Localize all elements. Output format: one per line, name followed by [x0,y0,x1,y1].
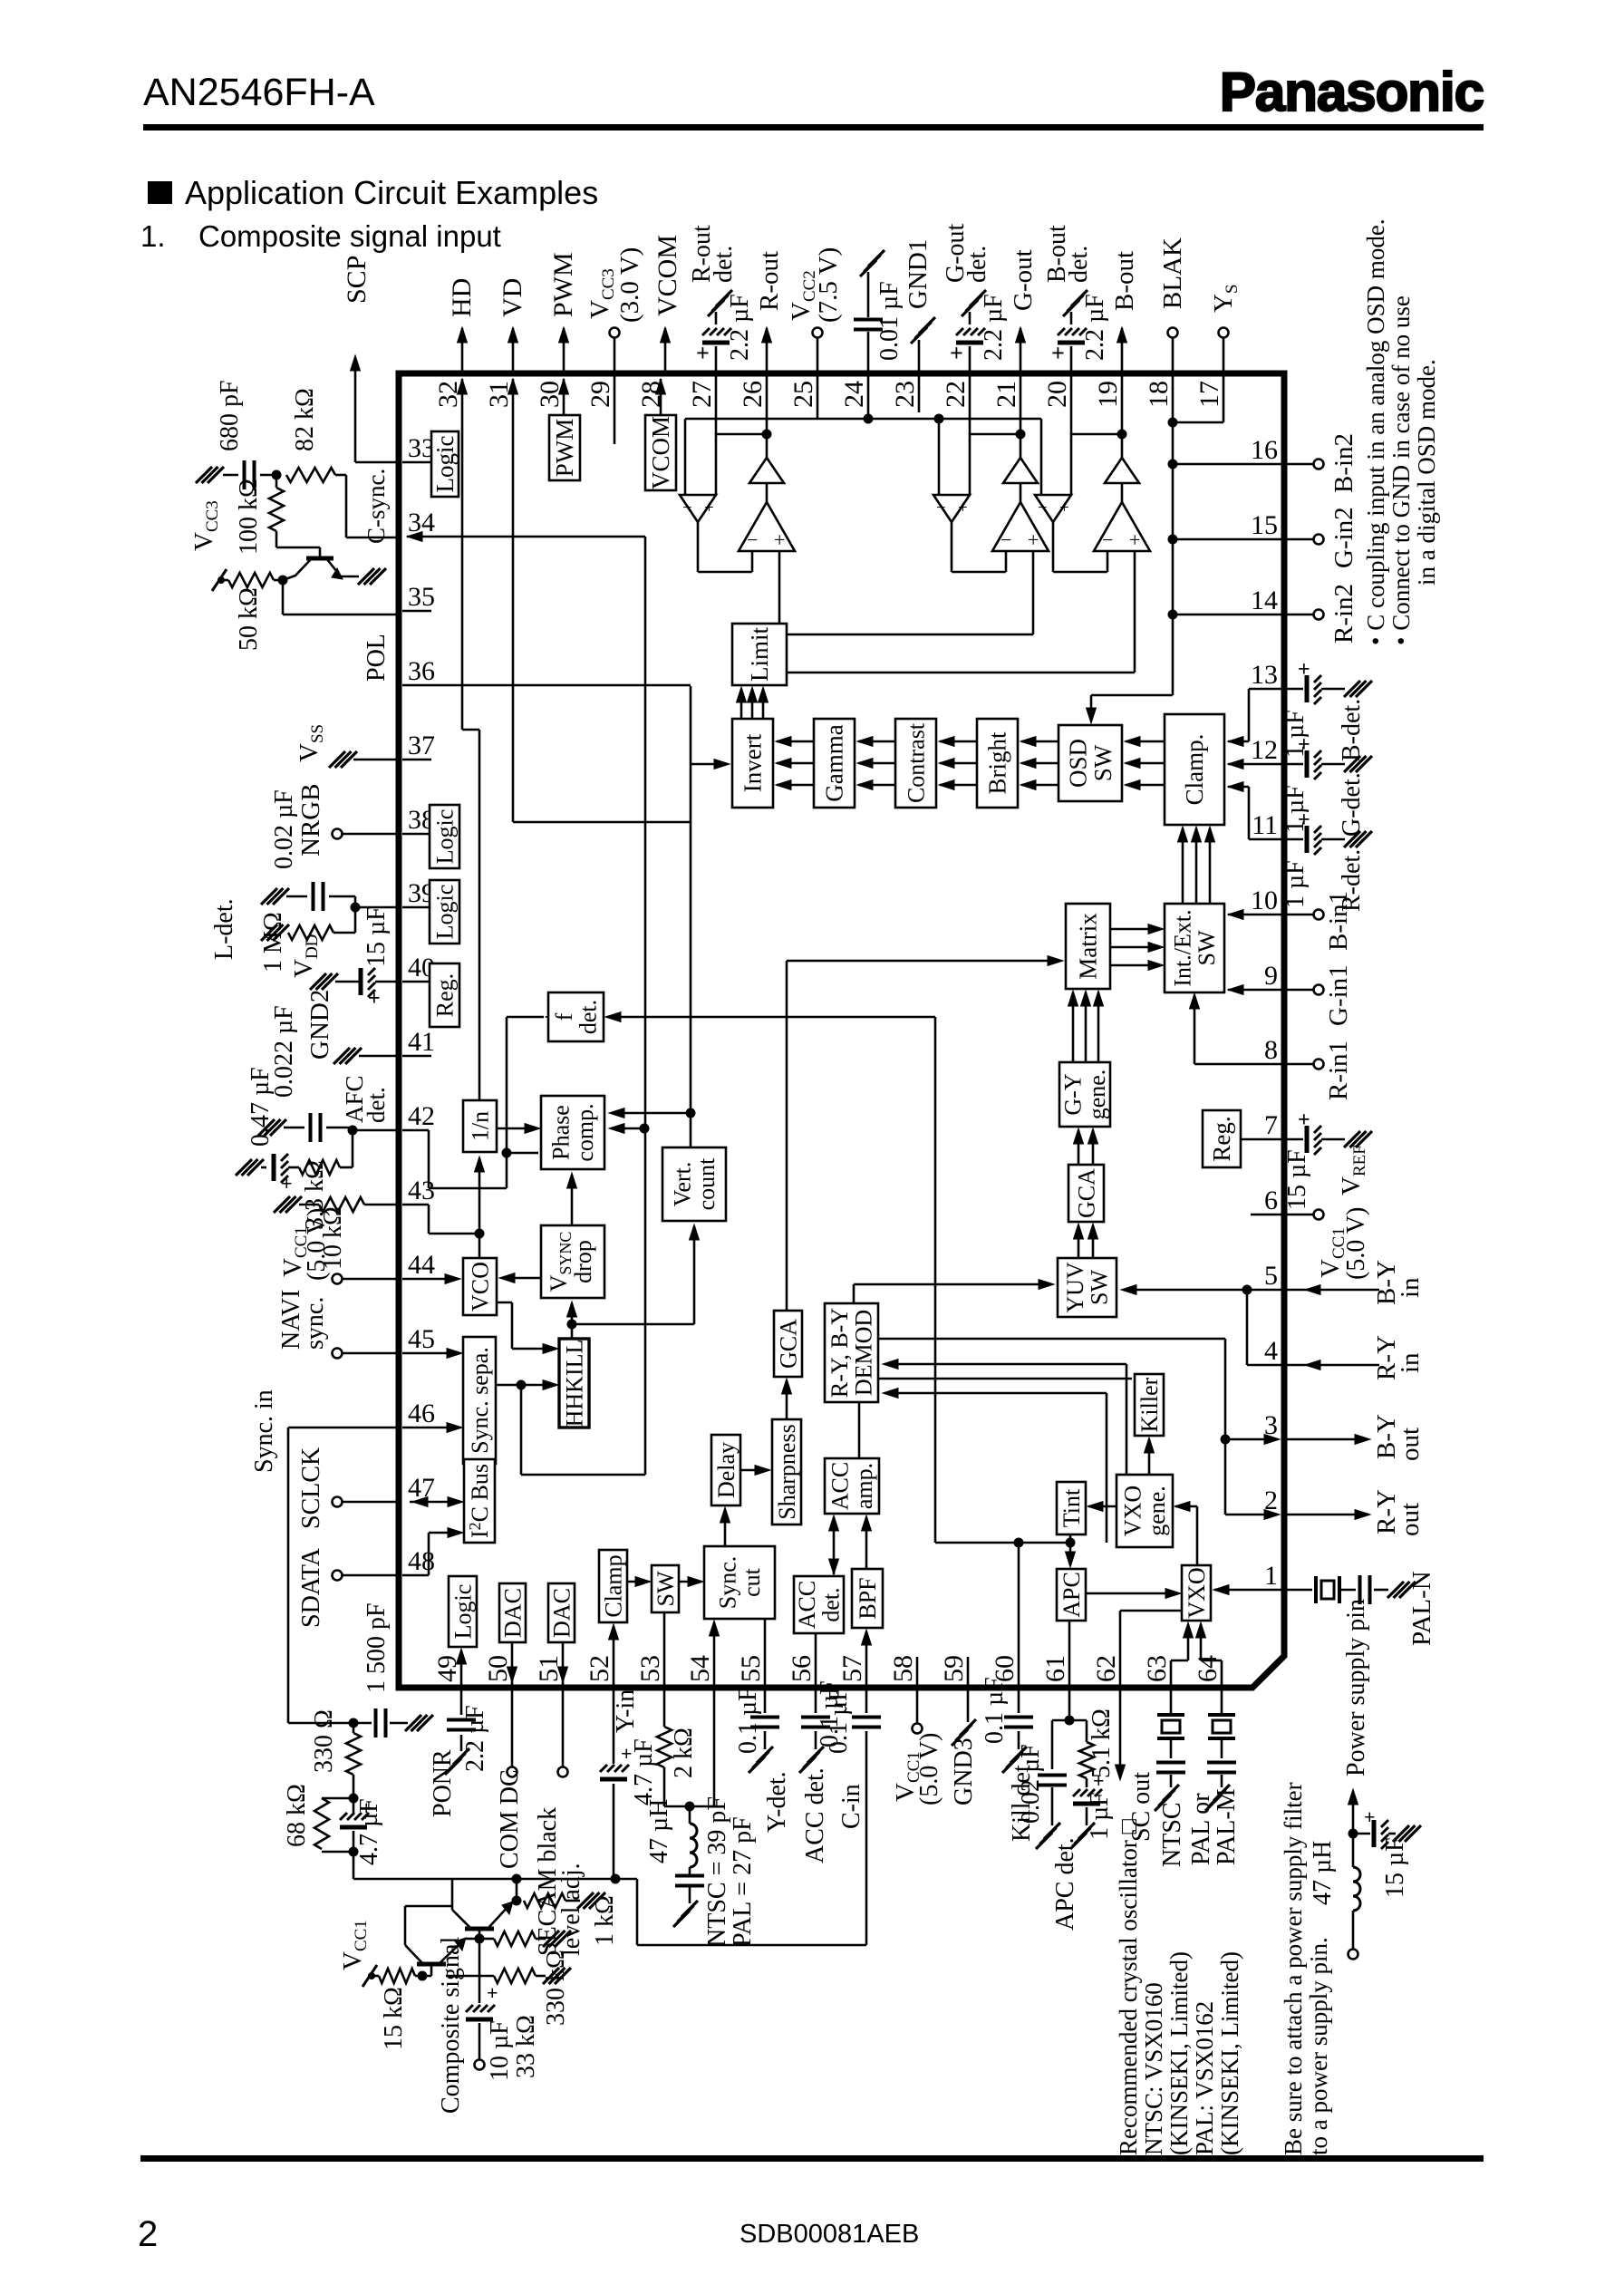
svg-text:4: 4 [1264,1336,1278,1366]
svg-text:1 µF: 1 µF [1086,1792,1114,1840]
svg-text:+: + [696,340,710,366]
block VXO [1182,1565,1211,1621]
svg-text:BPF: BPF [855,1577,881,1619]
svg-text:−: − [1102,528,1113,551]
wire Reg to pin 7 [1241,1138,1284,1141]
capacitor trap NTSC 39pF PAL 27pF [675,1874,704,1878]
svg-text:PAL-M: PAL-M [1213,1788,1241,1865]
wire pin 9 into Int Ext SW [1228,989,1284,992]
svg-text:VXO: VXO [1184,1567,1210,1618]
svg-text:C-sync.: C-sync. [362,469,390,544]
svg-text:15 µF: 15 µF [1381,1837,1409,1898]
svg-text:14: 14 [1251,586,1278,615]
wire pin 41 stub [402,1055,431,1058]
svg-text:21: 21 [991,381,1021,408]
svg-text:(7.5 V): (7.5 V) [814,247,843,323]
wire GCA luma to Matrix [786,961,788,1311]
inductor 47uH [689,1806,691,1824]
svg-text:PWM: PWM [548,252,578,317]
wire Vsync drop to VCO [502,1277,541,1280]
wire pin 14 internal [1173,614,1284,616]
svg-text:52: 52 [585,1655,614,1682]
section heading Application Circuit Examples [148,181,172,204]
svg-text:−: − [1000,528,1011,551]
block Killer [1135,1374,1164,1436]
wire pin 53 to SW [663,1612,666,1688]
header rule [143,124,1484,131]
wire Limit to B amp plus [787,672,1135,674]
svg-text:47: 47 [408,1473,435,1503]
svg-text:B-in1: B-in1 [1324,891,1353,951]
block G-Y gene [1059,1062,1110,1127]
svg-text:COM DC: COM DC [496,1769,524,1869]
wire pin 17 to OSD bus [1223,373,1225,422]
svg-text:47 µH: 47 µH [1309,1841,1337,1905]
wire pin 16 internal [1173,463,1284,466]
svg-text:42: 42 [408,1101,435,1131]
svg-text:5: 5 [1264,1261,1278,1291]
svg-text:BLAK: BLAK [1158,237,1187,309]
svg-text:(3.0 V): (3.0 V) [615,247,644,323]
svg-text:23: 23 [890,381,920,408]
capacitor 1500pF [349,1718,359,1728]
svg-text:Invert: Invert [739,733,767,792]
pin 45 NAVI sync terminal [342,1352,396,1355]
wire pin 58 stub [916,1657,919,1688]
svg-text:6: 6 [1264,1186,1278,1215]
wire pin 12 into Clamp [1228,763,1284,766]
resistor 3.3k with 0.47uF capacitor [352,1130,354,1167]
svg-text:NTSC: NTSC [1158,1802,1186,1867]
block GCA chroma [1068,1165,1104,1222]
pin 28 VCOM output [664,328,667,373]
wire HHKILL to Vsync drop [571,1303,574,1339]
svg-text:330 kΩ: 330 kΩ [542,1950,570,2026]
wire Int Ext SW to Clamp arrows [1182,828,1184,904]
transistor Q2 emitter follower [465,1927,494,1931]
svg-text:Sync. in: Sync. in [250,1389,278,1473]
svg-text:Contrast: Contrast [903,722,929,803]
wire pin 42 AFC to f det and Phase comp [402,1129,429,1132]
svg-text:SW: SW [1089,744,1116,781]
pin 46 Sync in wire [288,1427,396,1429]
wire VCOM to pin 28 [660,379,662,415]
svg-text:45: 45 [408,1324,435,1354]
op-amp R output amplifier [739,502,795,551]
capacitor 680pF [223,474,238,477]
svg-text:48: 48 [408,1546,435,1576]
wire R output to pin [766,434,768,458]
svg-text:53: 53 [635,1655,665,1682]
block Sync sepa [463,1337,496,1464]
wire Limit to R amp plus [778,551,781,624]
svg-text:GND1: GND1 [904,239,933,309]
block Logic pin 39 [430,880,459,944]
svg-text:to a power supply pin.: to a power supply pin. [1305,1937,1332,2155]
block Logic pin 38 [430,805,459,868]
resistor 5.1k with 1uF branch [1069,1719,1087,1722]
svg-text:cut: cut [739,1567,765,1597]
svg-text:Power supply pin: Power supply pin [1342,1599,1370,1776]
pin 31 VD output [512,328,515,373]
svg-text:G-det.: G-det. [1338,772,1366,837]
composite video node wire [353,1878,615,1881]
resistor 50k [221,579,228,582]
svg-text:36: 36 [408,656,435,686]
svg-text:Delay: Delay [713,1442,739,1498]
svg-text:1 kΩ: 1 kΩ [591,1895,619,1946]
pin 29 VCC3 supply terminal [614,338,616,373]
wire B buffer output to main amp [1052,522,1055,572]
svg-text:Application Circuit Examples: Application Circuit Examples [185,174,598,211]
pin 55 Y-det capacitor 0.1uF [764,1688,767,1713]
transistor Q1 sync buffer [306,557,333,561]
svg-text:37: 37 [408,731,435,760]
svg-text:(5.0 V): (5.0 V) [1342,1207,1370,1280]
pin 63 crystal NTSC [1170,1688,1173,1713]
svg-text:PAL or: PAL or [1187,1793,1215,1865]
wire Gamma to Invert arrows [777,740,814,743]
svg-text:NTSC = 39 pF: NTSC = 39 pF [703,1796,731,1947]
pin 40 VDD with 15uF capacitor [375,981,396,983]
wire pin 56 to ACC det [815,1633,817,1688]
svg-text:APC: APC [1058,1572,1085,1618]
svg-text:2.2 µF: 2.2 µF [980,294,1008,361]
svg-text:41: 41 [408,1027,435,1057]
wire R buffer output to main amp [697,522,700,572]
wire B feedback from output [1117,430,1127,440]
VCC2 internal rail [817,373,819,419]
wire DEMOD B-Y input [885,1392,1107,1395]
block Int Ext SW [1165,904,1224,992]
block SW pin 53 [652,1565,679,1612]
svg-text:0.02 µF: 0.02 µF [1017,1744,1045,1824]
svg-text:54: 54 [685,1655,715,1682]
wire ACC amp to DEMOD [858,1402,861,1458]
svg-text:68 kΩ: 68 kΩ [283,1784,311,1847]
C-in return wire to composite node [615,1878,637,1881]
pin 9 G-in1 terminal [1284,989,1314,992]
svg-text:33 kΩ: 33 kΩ [512,2015,540,2078]
svg-text:Y-in: Y-in [612,1689,640,1733]
block Clamp pin 52 [599,1550,627,1622]
block DAC pin 50 [499,1583,526,1642]
svg-text:Composite signal input: Composite signal input [198,219,501,253]
svg-text:Logic: Logic [449,1584,476,1640]
svg-text:0.1 µF: 0.1 µF [734,1687,762,1754]
wire OSD SW to Bright arrows [1021,740,1058,743]
wire Tint bottom to APC [1069,1534,1072,1565]
wire Contrast to Gamma arrows [858,740,895,743]
block R-Y B-Y DEMOD [825,1303,878,1402]
svg-text:DAC: DAC [548,1588,575,1638]
block Vsync drop [541,1225,604,1298]
capacitor 15uF power filter [1353,1833,1370,1835]
svg-text:9: 9 [1264,961,1278,991]
svg-text:AN2546FH-A: AN2546FH-A [143,71,375,114]
wire pin 60 kill det to chroma bus [1018,1543,1020,1688]
svg-text:0.1 µF: 0.1 µF [981,1677,1009,1744]
node A C-sync RC junction [272,470,282,480]
svg-text:DEMOD: DEMOD [851,1310,877,1396]
wire Invert to Limit arrows [740,689,743,719]
resistor 68k [314,1798,329,1849]
wire APC to VXO [1086,1592,1178,1595]
svg-text:8: 8 [1264,1035,1278,1065]
pin 1 crystal PAL-N [1284,1589,1312,1592]
svg-text:Vert.: Vert. [670,1162,696,1207]
svg-text:1.: 1. [140,219,166,253]
svg-text:SDB00081AEB: SDB00081AEB [739,2220,919,2249]
svg-text:−: − [682,498,692,518]
SCP output wire from pin 33 [355,461,396,464]
svg-text:+: + [487,1981,498,2004]
wire BPF to ACC amp [865,1517,868,1569]
pin 53 resistor 2k [663,1688,666,1727]
svg-text:44: 44 [408,1250,435,1280]
svg-text:27: 27 [687,381,717,408]
transistor Q3 first stage [417,1962,446,1967]
wire 100k to transistor base [276,547,320,549]
svg-text:level adj.: level adj. [557,1863,585,1956]
pin 13 B-det capacitor 1uF [1284,688,1303,691]
inductor 47uH power filter [1352,1834,1355,1867]
pin 20 B-out det capacitor 2.2uF [1070,346,1073,373]
pin 62 SC out [1119,1688,1122,1775]
svg-text:Panasonic: Panasonic [1220,62,1484,122]
resistor 330k lower [446,1975,494,1978]
wire pin 61 stub internal [1068,1621,1071,1688]
svg-text:Logic: Logic [431,809,458,865]
block ACC det [794,1576,844,1633]
svg-text:+: + [704,498,714,518]
svg-text:+: + [1129,528,1140,551]
op-amp B inverting buffer [1035,495,1071,522]
wire DEMOD R-Y input [885,1363,1126,1366]
svg-text:det.: det. [818,1587,845,1621]
wire B det pin to plus input [1070,373,1073,495]
svg-text:57: 57 [837,1655,867,1682]
svg-text:+: + [368,987,381,1011]
wire pin 38 to Logic [402,833,431,836]
wire VXO gene to Tint [1088,1505,1116,1508]
svg-text:count: count [693,1157,720,1211]
svg-text:Clamp.: Clamp. [1181,734,1208,806]
svg-text:+: + [1298,733,1310,757]
svg-text:2.2 µF: 2.2 µF [726,294,754,361]
block Logic pin 49 [449,1576,477,1647]
wire pin 43 to VCO node [402,1204,429,1206]
svg-text:1: 1 [1264,1561,1278,1591]
svg-text:det.: det. [575,1000,602,1034]
svg-text:• Connect to GND in case of n: • Connect to GND in case of no use [1387,295,1415,645]
pin 48 SDATA terminal [342,1574,396,1577]
capacitor 0.02uF [354,896,357,907]
block f det [548,992,604,1041]
wire pin 46 into Sync sepa [402,1427,459,1429]
svg-text:det.: det. [710,246,738,283]
resistor 330ohm [353,1723,355,1733]
pin 30 PWM output [563,328,565,373]
wire pin 49 to Logic [460,1650,463,1688]
wire pin 32 HD to 1/n divider [458,379,468,394]
svg-text:Logic: Logic [431,435,459,492]
svg-text:Reg.: Reg. [431,973,458,1017]
svg-text:GND3: GND3 [950,1737,978,1805]
wire pin 64 to VXO [1221,1660,1223,1688]
wire G output to pin [1020,434,1022,458]
svg-text:10: 10 [1251,886,1278,915]
resistor 330k upper [479,1938,494,1941]
svg-text:25: 25 [788,381,818,408]
node E trap junction [685,1802,695,1812]
pin 56 ACC det capacitor 0.1uF [815,1688,817,1713]
wire POL branch to Invert [691,763,726,766]
svg-text:PAL-N: PAL-N [1407,1571,1436,1646]
wire G feedback from output [1016,430,1026,440]
svg-text:comp.: comp. [572,1103,598,1161]
svg-text:B-det.: B-det. [1338,699,1366,761]
svg-text:Sharpness: Sharpness [774,1424,800,1519]
svg-text:+: + [958,498,968,518]
svg-text:0.47 µF: 0.47 µF [246,1067,275,1147]
block Phase comp [541,1096,604,1169]
svg-text:17: 17 [1194,381,1224,408]
svg-text:16: 16 [1251,435,1278,465]
wire sync sepa output bus bottom [521,1474,645,1476]
pin 58 VCC1 terminal [916,1688,919,1724]
svg-text:50 kΩ: 50 kΩ [235,587,263,651]
pin 43 10k resistor [364,1204,396,1206]
svg-text:Y-det.: Y-det. [763,1771,791,1833]
svg-text:+: + [281,1172,293,1195]
resistor 100k [275,475,278,488]
pin 2 R-Y out [1284,1514,1359,1516]
pin 21 G-out output [1020,328,1022,373]
pin 17 Ys terminal [1223,338,1225,373]
wire G inverting amp minus input [938,419,941,495]
svg-text:NRGB: NRGB [296,783,325,857]
svg-text:1 500 pF: 1 500 pF [362,1602,391,1693]
resistor 82k [286,468,335,482]
svg-text:YUV: YUV [1062,1262,1088,1313]
svg-text:VCOM: VCOM [652,235,682,316]
op-amp G booster stage [1020,483,1022,502]
pin 24 decoupling capacitor 0.01uF [867,332,870,373]
svg-text:47 µH: 47 µH [645,1799,673,1863]
pin 32 HD output [461,328,464,373]
svg-text:G-Y: G-Y [1060,1073,1087,1115]
svg-text:58: 58 [888,1655,918,1682]
svg-text:in a digital OSD mode.: in a digital OSD mode. [1413,359,1440,586]
svg-text:SW: SW [1194,930,1220,965]
svg-text:2.2 µF: 2.2 µF [461,1705,489,1772]
wire pin 29 internal stub [614,373,616,444]
pin 10 B-in1 terminal [1284,914,1314,916]
svg-text:amp.: amp. [851,1463,877,1509]
pin 41 GND2 [359,1055,396,1058]
wire pin 63 to VXO [1170,1660,1173,1688]
svg-text:• C coupling input in an anal: • C coupling input in an analog OSD mode… [1362,218,1389,645]
svg-text:4.7 µF: 4.7 µF [630,1738,658,1805]
pin 39 L-det network [355,906,396,909]
svg-text:680 pF: 680 pF [216,380,244,451]
wire pin 62 SC out from VXO [1119,1611,1122,1688]
footer rule [140,2155,1484,2162]
svg-text:G-in2: G-in2 [1329,507,1358,568]
pin 42 AFC det network [353,1129,396,1132]
wire SW to Sync cut [679,1581,701,1583]
wire pin 35 stub [402,610,431,613]
block VXO gene [1116,1475,1173,1547]
wire pin 10 into Int Ext SW [1228,914,1284,916]
svg-text:7: 7 [1264,1110,1278,1140]
svg-text:5.1 kΩ: 5.1 kΩ [1087,1708,1116,1778]
pin 64 crystal PAL [1221,1688,1223,1713]
svg-text:SW: SW [652,1571,679,1606]
resistor 1M [354,907,357,933]
block Matrix [1066,904,1110,989]
svg-text:11: 11 [1252,810,1278,840]
op-amp G output amplifier [992,502,1049,551]
node C 68k parallel 4.7uF top [349,1794,359,1804]
wire G-Y gene to Matrix arrows [1072,992,1075,1062]
svg-text:26: 26 [738,381,768,408]
pin 38 NRGB terminal [342,833,396,836]
svg-text:(5.0 V): (5.0 V) [915,1733,943,1805]
svg-text:+: + [1298,658,1310,682]
svg-text:82 kΩ: 82 kΩ [291,388,319,451]
block Limit [732,624,787,685]
wire Delay to Sharpness [740,1469,768,1472]
svg-text:VXO: VXO [1120,1486,1146,1536]
svg-text:62: 62 [1091,1655,1121,1682]
svg-text:12: 12 [1251,735,1278,765]
wire OSD bus to OSD SW [1091,694,1173,697]
svg-text:19: 19 [1093,381,1123,408]
block DAC pin 51 [548,1583,575,1642]
svg-text:(KINSEKI, Limited): (KINSEKI, Limited) [1216,1951,1243,2155]
pin 11 R-det capacitor 1uF [1284,838,1303,841]
power supply filter note arrow [1352,1793,1355,1834]
block YUV SW [1058,1258,1116,1317]
block Clamp [1165,714,1224,825]
wire pin 33 to Logic [402,461,433,464]
wire Clamp to OSD SW arrows [1126,740,1165,743]
pin 26 R-out output [766,328,768,373]
capacitor 4.7uF parallel [353,1798,355,1813]
svg-text:2 kΩ: 2 kΩ [670,1728,698,1778]
svg-text:−: − [747,528,758,551]
pin 16 B-in2 terminal [1284,463,1314,466]
wire Clamp to SW [627,1581,648,1583]
wire pin 13 into Clamp [1249,688,1284,691]
svg-text:Composite signal: Composite signal [437,1937,465,2114]
svg-text:2: 2 [138,2214,158,2254]
block BPF [852,1569,883,1628]
svg-text:15: 15 [1251,510,1278,540]
svg-text:+: + [1051,340,1065,366]
capacitor 0.02uF branch [1052,1719,1069,1722]
pin 59 GND3 [967,1688,970,1722]
wire pin 54 to Sync cut [713,1622,716,1688]
pin 7 VREF capacitor 15uF [1284,1138,1303,1141]
svg-text:G-in1: G-in1 [1324,964,1353,1026]
pin 61 APC det network [1068,1688,1071,1720]
ground at Q1 emitter [358,568,374,585]
wire Sync sepa output to HHKILL [496,1384,556,1387]
svg-text:in: in [1396,1277,1425,1298]
